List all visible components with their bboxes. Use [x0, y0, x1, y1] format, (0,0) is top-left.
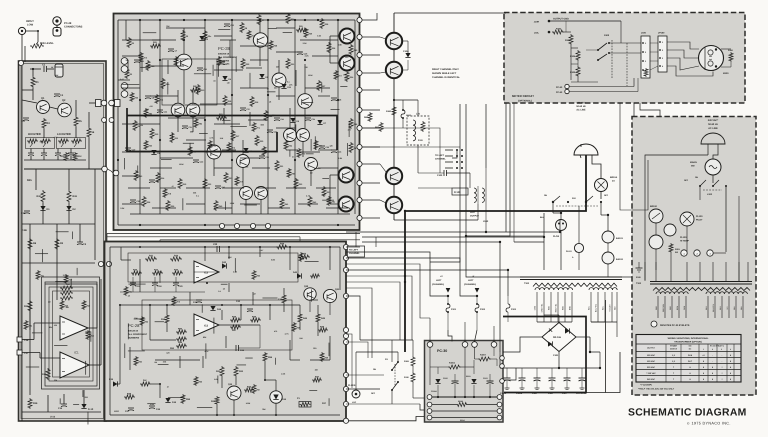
wire riser bend: [420, 296, 430, 318]
resistor R22: [203, 178, 207, 189]
ground symbol chassis: [638, 262, 640, 268]
svg-text:NUMBERS: NUMBERS: [128, 337, 140, 340]
svg-text:RED: RED: [655, 305, 658, 310]
wire: [158, 364, 169, 366]
capacitor C10: [125, 147, 131, 149]
svg-text:8: 8: [730, 372, 731, 375]
transformer T1 primary winding: [533, 283, 617, 286]
svg-text:J100: J100: [641, 32, 647, 35]
svg-text:C22: C22: [213, 243, 218, 246]
output transistor Q102: [386, 168, 402, 184]
wire: [217, 63, 219, 76]
fuse F102: [476, 296, 478, 304]
svg-text:R61: R61: [129, 291, 132, 294]
wire lower box to fuse F102: [346, 258, 477, 296]
wire mid bus lower panel: [120, 304, 300, 306]
wire: [318, 167, 338, 169]
wire filter common bus: [24, 159, 86, 161]
op-amp IC2: [194, 261, 219, 283]
filter capacitor C101: [521, 368, 523, 378]
transistor Q5: [253, 33, 267, 47]
wire: [122, 87, 140, 89]
svg-text:R69: R69: [309, 33, 312, 36]
capacitor C31: [182, 125, 188, 127]
wire: [286, 187, 306, 189]
svg-text:0.47: 0.47: [120, 78, 124, 81]
wire junction: [117, 99, 119, 101]
svg-text:LGC: LGC: [352, 401, 357, 404]
wire: [182, 198, 184, 210]
wire to Q101: [380, 72, 386, 73]
svg-text:1M: 1M: [253, 292, 256, 295]
wire D10 top: [83, 390, 85, 404]
svg-text:POWER: POWER: [670, 345, 677, 348]
tab TO LEFT CHANNEL: [348, 246, 365, 257]
table row rule: [636, 357, 741, 359]
capacitor C100: [443, 170, 445, 176]
wire: [329, 336, 331, 360]
svg-text:BR100: BR100: [650, 205, 658, 208]
wire: [189, 143, 191, 151]
eyelet PC-28 lower right edge: [343, 386, 348, 391]
resistor R40: [276, 245, 288, 249]
power switch S10 contacts: [552, 201, 554, 203]
wire: [242, 140, 244, 154]
wire top of switch area: [360, 339, 413, 341]
wire: [289, 150, 291, 157]
wire to PL10: [346, 334, 352, 388]
wire: [240, 45, 268, 47]
wire: [221, 377, 223, 388]
wire: [318, 149, 332, 151]
output transistor Q100: [386, 33, 402, 49]
wire rail V2: [159, 20, 161, 214]
wire to R32: [35, 169, 37, 190]
wire junction: [183, 39, 185, 41]
wire transformer primary to output: [466, 236, 520, 277]
svg-text:BLU: BLU: [705, 306, 708, 310]
svg-text:120: 120: [329, 144, 332, 147]
svg-text:R10A: R10A: [460, 419, 465, 422]
wire: [330, 174, 338, 176]
wire: [713, 252, 726, 254]
svg-text:BLU/YEL: BLU/YEL: [595, 303, 598, 312]
capacitor C12: [193, 159, 199, 161]
svg-text:C30: C30: [140, 60, 143, 63]
transformer T1 secondary winding A: [535, 288, 573, 290]
resistor R69: [320, 352, 324, 362]
wire: [309, 390, 317, 392]
connector tab C17: [17, 350, 22, 355]
wire plug stem: [580, 144, 582, 147]
resistor R61: [124, 286, 128, 296]
wire: [197, 407, 212, 409]
capacitor C10: [130, 282, 136, 284]
svg-text:8: 8: [730, 366, 731, 369]
resistor R71: [252, 122, 256, 132]
svg-text:+2: +2: [702, 354, 704, 357]
wire: [221, 310, 223, 320]
svg-text:R33: R33: [73, 195, 78, 198]
resistor R4: [42, 118, 46, 129]
wire PL10 up: [355, 352, 357, 390]
resistor R67: [252, 384, 256, 394]
wire: [304, 108, 306, 128]
svg-text:R21: R21: [41, 275, 44, 278]
wire junction: [476, 295, 478, 297]
wire: [113, 383, 120, 385]
magnetic switch SW100: [705, 159, 721, 175]
wire: [633, 78, 635, 87]
eyelet PC-28 right edge: [357, 87, 362, 92]
diode D20: [222, 263, 226, 268]
wire: [140, 66, 149, 68]
wire: [161, 159, 172, 161]
svg-text:BLK: BLK: [614, 305, 617, 309]
svg-text:R73: R73: [302, 153, 305, 156]
capacitor C18: [152, 282, 158, 284]
table column rule: [698, 344, 700, 382]
svg-text:4.7K: 4.7K: [54, 136, 59, 139]
wire eyelet lead: [362, 72, 380, 74]
wire eyelet lead: [362, 182, 380, 184]
wire secondary lead: [597, 292, 599, 322]
svg-text:C100A: C100A: [431, 390, 438, 393]
capacitor C39: [130, 199, 136, 201]
resistor R42c: [310, 274, 320, 278]
wire bridge left: [530, 336, 542, 338]
wire: [328, 398, 330, 406]
connector tab C18: [17, 337, 22, 342]
svg-text:C41: C41: [280, 118, 283, 121]
svg-text:R65: R65: [139, 361, 142, 364]
resistor R16: [223, 95, 227, 106]
wire eyelet lead: [362, 109, 380, 111]
svg-text:PL10/S: PL10/S: [348, 384, 356, 387]
svg-text:220: 220: [85, 396, 88, 399]
transistor Q9: [186, 103, 200, 117]
wire junction: [216, 414, 218, 416]
wire: [295, 70, 297, 86]
wire: [73, 404, 79, 406]
resistor R63: [262, 146, 266, 156]
transistor Q22: [227, 386, 241, 400]
table column rule: [733, 344, 735, 382]
svg-text:PL100: PL100: [680, 236, 687, 239]
svg-text:R81: R81: [332, 201, 335, 204]
wire: [167, 60, 169, 74]
diode D6: [290, 118, 295, 122]
wire junction: [552, 201, 554, 203]
svg-text:470: 470: [150, 105, 153, 108]
switch blade 2: [713, 180, 719, 186]
wire junction: [149, 304, 151, 306]
svg-text:IC3: IC3: [204, 325, 209, 328]
resistor R4b: [146, 60, 150, 71]
wire: [339, 247, 341, 290]
wire fuse F101 to PC-30: [448, 330, 452, 342]
junction on PC-30 bus: [437, 396, 439, 398]
wire: [304, 64, 306, 94]
svg-text:HI TEMP: HI TEMP: [680, 240, 689, 243]
switch blade B: [586, 196, 593, 202]
capacitor C20: [173, 282, 179, 284]
eyelet PC-30 top edge 1: [427, 342, 433, 348]
wire secondary lead B: [728, 296, 730, 318]
capacitor C26: [149, 405, 155, 407]
svg-text:IC1: IC1: [74, 351, 79, 355]
svg-text:2.2K: 2.2K: [281, 373, 286, 376]
wire: [155, 321, 164, 323]
resistor R38: [142, 196, 146, 207]
wire to L10: [394, 99, 418, 101]
resistor R68: [269, 40, 273, 50]
wire: [314, 167, 320, 169]
table column rule: [707, 344, 709, 382]
svg-text:C4B: C4B: [22, 229, 27, 232]
resistor R25c: [215, 396, 219, 405]
ballast BA102: [602, 252, 614, 264]
svg-text:6.8K: 6.8K: [338, 157, 343, 160]
wire: [500, 367, 503, 369]
resistor R43: [298, 255, 310, 259]
wire rail V5: [267, 20, 269, 214]
wire: [322, 199, 334, 201]
resistor R24: [244, 388, 254, 392]
wire: [420, 404, 424, 410]
wire junction: [159, 59, 161, 61]
wire: [699, 186, 701, 200]
diode D8: [151, 150, 156, 154]
svg-text:BR10A: BR10A: [610, 176, 618, 179]
svg-text:1M: 1M: [227, 82, 230, 85]
svg-text:C38: C38: [325, 146, 328, 149]
wire junction: [231, 19, 233, 21]
fuse F100: [402, 100, 404, 110]
wire C24 net: [239, 347, 261, 349]
wire: [56, 231, 69, 233]
resistor R25b: [241, 58, 245, 69]
svg-text:4.7K: 4.7K: [306, 195, 311, 198]
pot wiper arrow: [36, 42, 38, 45]
svg-text:R23: R23: [87, 305, 90, 308]
wire eyelet run y147: [362, 146, 460, 148]
resistor R18: [60, 291, 73, 295]
wire: [262, 297, 277, 299]
wire: [147, 403, 155, 405]
svg-text:SCHEMATIC DIAGRAM: SCHEMATIC DIAGRAM: [628, 408, 747, 419]
svg-text:BRN: BRN: [676, 305, 679, 310]
svg-text:C36: C36: [203, 68, 206, 71]
wire: [571, 47, 578, 49]
svg-text:R79: R79: [240, 181, 243, 184]
capacitor C8: [145, 95, 151, 97]
wire rail B: [56, 224, 58, 300]
filter capacitor C100: [506, 368, 508, 378]
wire C19 top: [63, 394, 65, 404]
svg-text:R25: R25: [91, 335, 94, 338]
wire rail V6: [294, 20, 296, 214]
wire to transformer primary: [686, 262, 688, 281]
svg-text:2.2K: 2.2K: [63, 274, 68, 277]
svg-text:R1004: R1004: [449, 362, 456, 365]
wire secondary lead A: [685, 296, 687, 318]
svg-text:220: 220: [274, 87, 277, 90]
svg-text:R68: R68: [297, 327, 300, 330]
wire S100 to J100 pin1: [609, 42, 641, 44]
wire meter tap 1: [459, 104, 461, 230]
svg-text:PC-50: PC-50: [556, 91, 563, 94]
wire junction: [159, 139, 161, 141]
svg-text:220: 220: [305, 66, 308, 69]
wire: [295, 124, 297, 135]
wire lamp down: [655, 249, 657, 270]
wire: [300, 39, 338, 41]
wire: [274, 358, 276, 365]
resistor R1004: [448, 365, 461, 369]
wire: [276, 51, 302, 53]
svg-text:220 VAC: 220 VAC: [647, 366, 656, 369]
svg-text:0.1: 0.1: [218, 290, 221, 293]
eyelet PC-30 right edge b: [500, 364, 505, 369]
svg-text:LEFT: LEFT: [468, 279, 474, 282]
wire: [205, 343, 207, 358]
wire fuse F102 to PC-30: [475, 330, 478, 342]
transformer T100 secondary winding B: [706, 292, 747, 294]
wire right-side switched line: [738, 196, 740, 281]
resistor R30: [172, 271, 183, 275]
svg-text:0.1: 0.1: [177, 116, 180, 119]
wire junction: [337, 99, 339, 101]
pilot lamp PL100: [680, 212, 694, 226]
cable marker caps to left channel: [445, 149, 453, 151]
svg-text:4.7K: 4.7K: [209, 136, 214, 139]
wire R5 top: [75, 100, 77, 116]
svg-text:TO LEFT: TO LEFT: [349, 249, 359, 252]
wire: [220, 39, 236, 41]
feedback wire loop around IC2: [128, 253, 298, 282]
capacitor C9: [77, 241, 83, 243]
filter capacitor C103: [551, 368, 553, 378]
resistor R67: [217, 56, 221, 66]
wire junction: [221, 304, 223, 306]
wire JP100 to meter 4: [667, 66, 713, 76]
wire: [330, 35, 340, 37]
wire to R1004: [430, 366, 448, 368]
svg-text:LOW: LOW: [27, 24, 34, 27]
wire PL100 down: [686, 226, 688, 252]
wire: [90, 331, 92, 341]
eyelet PC-28 lower right edge: [343, 372, 348, 377]
wire junction: [599, 367, 601, 369]
svg-text:R72: R72: [232, 147, 235, 150]
svg-text:WIRING VARIATIONS, INTERNATION: WIRING VARIATIONS, INTERNATIONAL: [668, 337, 709, 340]
eyelet PC-28 lower right edge: [343, 339, 348, 344]
resistor R5: [181, 30, 185, 41]
wire junction: [233, 414, 235, 416]
wire to transformer primary: [670, 262, 672, 281]
svg-text:R1007: R1007: [480, 354, 487, 357]
capacitor C36: [197, 67, 203, 69]
wire ground return to right box: [586, 352, 620, 393]
resistor R105: [576, 66, 580, 77]
wire D102 down: [473, 385, 475, 397]
wire: [150, 167, 172, 169]
wire eyelet lead: [362, 199, 380, 201]
svg-text:F100: F100: [406, 114, 412, 117]
wire: [228, 283, 230, 292]
wire: [202, 356, 204, 368]
wire junction: [267, 19, 269, 21]
wire: [177, 90, 179, 103]
resistor R24: [24, 320, 28, 330]
eyelet PC-28 bottom edge: [250, 223, 255, 228]
wire: [275, 403, 277, 415]
wire output rail: [393, 13, 395, 220]
svg-text:240 VAC: 240 VAC: [647, 378, 656, 381]
svg-text:R77: R77: [339, 75, 342, 78]
resistor R5c: [203, 30, 207, 41]
LO FILTER switch network S3: [57, 138, 86, 149]
wire eyelet lead: [362, 217, 380, 219]
wire filter to PC-28 input: [108, 169, 112, 171]
wire: [599, 352, 601, 368]
wire switched line down: [725, 186, 727, 252]
svg-text:M100: M100: [723, 72, 729, 75]
resistor R32: [294, 178, 298, 189]
wire: [326, 207, 348, 209]
svg-text:* F (CHAMP): * F (CHAMP): [640, 384, 652, 387]
PC-50 terminals: [565, 84, 569, 88]
wire: [166, 305, 168, 314]
wire: [347, 143, 349, 156]
svg-text:DR-106: DR-106: [553, 336, 562, 339]
resistor R65: [134, 356, 138, 366]
resistor R22: [234, 366, 238, 377]
svg-text:R66: R66: [135, 97, 138, 100]
svg-text:C32: C32: [230, 24, 233, 27]
wire R110 down: [412, 383, 414, 398]
capacitor C40: [215, 185, 221, 187]
resistor R66: [130, 92, 134, 102]
wire: [259, 47, 261, 66]
power supply / AC line panel (dashed): [632, 117, 756, 396]
svg-text:R76: R76: [252, 35, 255, 38]
wire J100-JP100: [650, 51, 658, 53]
svg-text:400-28-15: 400-28-15: [128, 330, 139, 333]
wire BA102 return: [605, 300, 607, 393]
resistor R53: [150, 44, 161, 48]
wire secondary lead: [564, 292, 566, 322]
resistor R23: [82, 300, 86, 310]
wire left rail upper: [21, 66, 23, 168]
svg-text:OUTPUT: OUTPUT: [647, 347, 656, 350]
resistor R74: [155, 94, 159, 104]
wire: [503, 368, 516, 380]
wire: [346, 246, 360, 248]
resistor R37: [349, 142, 353, 153]
wire breaker to switch: [600, 192, 602, 200]
wire meter coil lead: [704, 47, 706, 70]
wire: [299, 323, 301, 330]
wire to transformer primary: [725, 262, 727, 281]
wire: [76, 268, 78, 275]
svg-text:0.47: 0.47: [172, 300, 176, 303]
resistor R42: [170, 257, 182, 261]
svg-text:R45: R45: [27, 179, 32, 182]
diode D2: [66, 206, 71, 210]
capacitor C3: [23, 117, 29, 119]
